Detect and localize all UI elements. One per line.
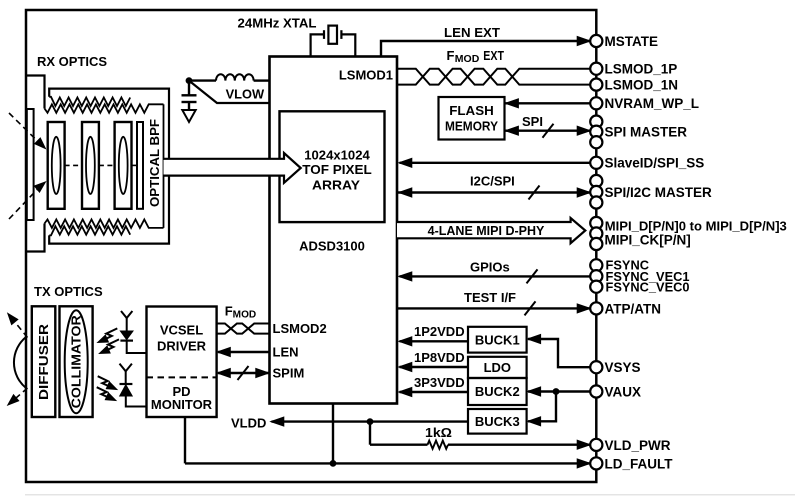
svg-text:SPI: SPI [522, 114, 543, 129]
svg-text:LEN: LEN [273, 345, 299, 360]
RX housing inner right wall [163, 104, 165, 228]
svg-text:TX OPTICS: TX OPTICS [34, 284, 103, 299]
ground (open arrow) [182, 110, 195, 122]
diffuser block [32, 306, 56, 417]
svg-text:FSYNC_VEC0: FSYNC_VEC0 [606, 281, 690, 295]
label LEN [273, 345, 299, 360]
RX housing bottom mounting bracket [27, 224, 45, 252]
wire I2C/SPI bus [397, 186, 590, 200]
twisted pair FMOD (LSMOD2) [217, 324, 270, 334]
wire 1P8VDD LDO to chip [399, 363, 468, 372]
inductor (ferrite bead) on VLOW [189, 74, 270, 80]
svg-text:DRIVER: DRIVER [157, 339, 207, 354]
svg-text:LD_FAULT: LD_FAULT [605, 456, 674, 471]
pin FSYNC [590, 259, 689, 295]
label COLLIMATOR [70, 315, 84, 408]
pin LSMOD_1N [590, 78, 678, 93]
label 1kOhm [425, 425, 452, 440]
svg-text:MIPI_CK[P/N]: MIPI_CK[P/N] [605, 232, 691, 247]
label BUCK2 [475, 384, 520, 399]
pin SPI MASTER [590, 116, 687, 149]
pin MIPI_D[P/N]0 to MIPI_D[P/N]3 [590, 217, 787, 250]
pin VAUX [590, 384, 641, 399]
label LSMOD1 [339, 68, 393, 83]
svg-text:SPIM: SPIM [273, 366, 305, 381]
svg-text:LSMOD_1N: LSMOD_1N [605, 78, 679, 93]
svg-text:VLD_PWR: VLD_PWR [605, 438, 671, 453]
RX housing top mounting bracket [27, 76, 45, 109]
label FMOD EXT [447, 48, 505, 65]
incoming light ray 2 (dashed arrow) [9, 182, 45, 219]
svg-text:BUCK2: BUCK2 [475, 384, 520, 399]
svg-text:4-LANE MIPI D-PHY: 4-LANE MIPI D-PHY [428, 224, 545, 238]
label DIFFUSER [36, 323, 51, 400]
wire VSYS to BUCK1 [528, 335, 591, 368]
flash memory block [439, 97, 505, 140]
svg-text:SlaveID/SPI_SS: SlaveID/SPI_SS [605, 156, 705, 171]
wire VLOW return (diagonal) [189, 81, 270, 103]
label 1P8VDD [414, 350, 465, 365]
svg-text:SPI/I2C MASTER: SPI/I2C MASTER [605, 185, 713, 200]
buck regulator BUCK2 [468, 378, 527, 405]
label TX OPTICS [34, 284, 103, 299]
label LEN EXT [444, 25, 500, 40]
svg-text:1024x1024: 1024x1024 [304, 147, 370, 162]
RX lens element 2 [82, 122, 99, 209]
label GPIOs [470, 260, 510, 275]
svg-text:LDO: LDO [484, 360, 511, 375]
label RX OPTICS [37, 54, 107, 69]
label 4-LANE MIPI D-PHY [428, 224, 545, 238]
pin LSMOD_1P [590, 62, 677, 77]
svg-text:1kΩ: 1kΩ [425, 425, 452, 440]
svg-text:BUCK1: BUCK1 [475, 332, 520, 347]
pin NVRAM_WP_L [590, 96, 699, 111]
svg-text:24MHz XTAL: 24MHz XTAL [238, 16, 317, 31]
pin LD_FAULT [590, 456, 673, 471]
svg-text:RX OPTICS: RX OPTICS [37, 54, 107, 69]
collimator block [60, 306, 93, 417]
wire 3P3VDD BUCK2 to chip [399, 388, 468, 397]
label BUCK1 [475, 332, 520, 347]
svg-text:VCSEL: VCSEL [160, 323, 203, 338]
svg-text:LEN EXT: LEN EXT [444, 25, 500, 40]
wire SPI bus flash to SPI MASTER [505, 124, 590, 138]
op-chip ADSD3100 outline [270, 57, 398, 404]
outgoing light ray 1 (dashed arrow) [8, 313, 28, 337]
label FMOD [225, 304, 256, 321]
svg-text:SPI MASTER: SPI MASTER [605, 125, 688, 140]
label TEST I/F [464, 290, 516, 305]
svg-text:OPTICAL BPF: OPTICAL BPF [148, 119, 162, 207]
page divider rule (faint) [25, 494, 795, 495]
incoming light ray 1 (dashed arrow) [9, 113, 45, 149]
monitor photodiode D2 [120, 364, 147, 407]
chip bottom stem to LD_FAULT line [332, 404, 334, 464]
svg-text:MOD: MOD [233, 310, 257, 321]
TX output lens arc [14, 337, 26, 388]
wire LEN chip to VCSEL driver [217, 348, 269, 357]
pin SlaveID/SPI_SS [590, 156, 704, 171]
svg-text:VSYS: VSYS [605, 360, 641, 375]
svg-text:MSTATE: MSTATE [605, 34, 659, 49]
node VLOW junction [186, 77, 193, 84]
label PD MONITOR [151, 384, 213, 412]
wire SlaveID/SPI_SS to chip [399, 158, 591, 167]
TOF pixel array block [280, 111, 385, 222]
LDO regulator [468, 357, 527, 378]
PD monitor stem down [184, 417, 186, 463]
buck regulator BUCK1 [468, 327, 527, 353]
crystal X1 (24MHz XTAL) [311, 26, 356, 57]
RX barrel thread bottom (upper zigzag) [45, 219, 164, 228]
svg-text:F: F [447, 48, 455, 63]
RX mount plate [27, 109, 34, 220]
label ADSD3100 [299, 239, 365, 254]
VCSEL driver / PD monitor block [147, 307, 217, 418]
pin MSTATE [590, 34, 658, 49]
wire LD_FAULT [185, 459, 590, 468]
wire VAUX to BUCK2 [528, 387, 591, 396]
RX housing outer shell [49, 89, 169, 244]
label FLASH MEMORY [445, 103, 498, 134]
wire TEST I/F to ATP/ATN [397, 301, 590, 315]
label LDO [484, 360, 511, 375]
collimator lens ellipse [65, 310, 88, 413]
RX barrel thread top (lower zigzag) [45, 104, 164, 113]
svg-text:ARRAY: ARRAY [312, 177, 360, 192]
svg-text:EXT: EXT [483, 48, 504, 63]
svg-text:I2C/SPI: I2C/SPI [470, 174, 515, 189]
label SPI [522, 114, 543, 129]
wide arrow RX optics to pixel array [164, 153, 301, 183]
svg-text:MEMORY: MEMORY [445, 119, 498, 134]
wire GPIOs to chip [399, 269, 591, 283]
pin VSYS [590, 360, 640, 375]
resistor 1kOhm [370, 440, 590, 449]
VCSEL laser diode D1 [120, 311, 146, 353]
wire LEN EXT to MSTATE [381, 37, 590, 57]
label VCSEL DRIVER [157, 323, 207, 354]
capacitor on VLOW node [182, 81, 197, 110]
pin SPI/I2C MASTER [590, 175, 712, 209]
svg-text:F: F [225, 304, 233, 319]
wire VAUX to BUCK3 [528, 392, 556, 426]
label VLOW [226, 87, 265, 102]
RX lens element 3 [115, 122, 132, 209]
svg-text:1P2VDD: 1P2VDD [414, 324, 465, 339]
label SPIM [273, 366, 305, 381]
svg-text:TOF PIXEL: TOF PIXEL [302, 162, 372, 177]
buck regulator BUCK3 [468, 409, 527, 434]
svg-text:MONITOR: MONITOR [151, 397, 213, 412]
svg-text:LSMOD2: LSMOD2 [273, 321, 327, 336]
optical band-pass filter plate [137, 122, 143, 209]
RX lens element 1 [48, 122, 65, 209]
module boundary (outer border, right edge is pin bus) [26, 10, 596, 482]
svg-text:COLLIMATOR: COLLIMATOR [70, 315, 84, 408]
label I2C/SPI [470, 174, 515, 189]
junction chip stem / LD_FAULT line [330, 460, 337, 467]
wire junction down to 1k resistor [369, 422, 371, 445]
emitted light arrows [98, 328, 119, 353]
RX barrel thread top (upper zigzag) [49, 97, 130, 106]
label 1024x1024 TOF PIXEL ARRAY [302, 147, 372, 192]
svg-text:GPIOs: GPIOs [470, 260, 510, 275]
svg-text:TEST I/F: TEST I/F [464, 290, 516, 305]
svg-text:NVRAM_WP_L: NVRAM_WP_L [605, 96, 700, 111]
label 1P2VDD [414, 324, 465, 339]
svg-text:VAUX: VAUX [605, 384, 642, 399]
pin ATP/ATN [590, 301, 661, 316]
wide arrow 4-LANE MIPI D-PHY [397, 218, 585, 243]
junction on VLDD line [367, 418, 374, 425]
svg-text:3P3VDD: 3P3VDD [414, 375, 465, 390]
label OPTICAL BPF [148, 119, 162, 207]
received light arrows [97, 376, 117, 400]
pin VLD_PWR [590, 438, 671, 453]
junction on VAUX line [553, 388, 560, 395]
svg-text:ADSD3100: ADSD3100 [299, 239, 365, 254]
wire SPIM bus (bidirectional) [217, 366, 269, 380]
svg-text:FLASH: FLASH [449, 103, 494, 118]
wire NVRAM_WP_L to flash [504, 99, 590, 108]
label VLDD [231, 416, 266, 431]
svg-text:BUCK3: BUCK3 [475, 414, 520, 429]
label BUCK3 [475, 414, 520, 429]
svg-text:LSMOD_1P: LSMOD_1P [605, 62, 678, 77]
optical axis (dashed) [65, 164, 137, 166]
outgoing light ray 2 (dashed arrow) [8, 388, 28, 405]
wire VLDD from BUCK3 [271, 417, 468, 426]
svg-text:MOD: MOD [455, 54, 480, 65]
twisted pair FMOD EXT (LSMOD_1P/LSMOD_1N) [397, 69, 590, 85]
svg-text:VLDD: VLDD [231, 416, 266, 431]
divider VCSEL/PD (dashed) [147, 376, 217, 378]
RX barrel thread bottom (lower zigzag) [49, 226, 130, 235]
svg-text:VLOW: VLOW [226, 87, 265, 102]
svg-text:DIFFUSER: DIFFUSER [36, 323, 51, 400]
svg-text:LSMOD1: LSMOD1 [339, 68, 393, 83]
label 3P3VDD [414, 375, 465, 390]
wire 1P2VDD BUCK1 to chip [399, 337, 468, 346]
svg-text:1P8VDD: 1P8VDD [414, 350, 465, 365]
label LSMOD2 [273, 321, 327, 336]
svg-text:ATP/ATN: ATP/ATN [605, 301, 662, 316]
label 24MHz XTAL [238, 16, 317, 31]
